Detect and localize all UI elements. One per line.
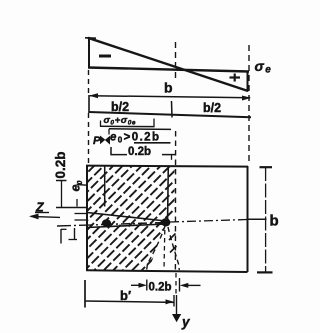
apex stub — [85, 37, 96, 39]
Z axis arrow — [31, 216, 60, 217]
body outline left — [86, 165, 88, 271]
body outline bottom — [86, 270, 248, 272]
kern point 1 — [102, 219, 111, 227]
centerline tick to b label — [248, 218, 267, 220]
hatch zone right solid boundary — [167, 166, 170, 226]
svg-text:b′: b′ — [120, 288, 131, 303]
left edge tick y207 — [56, 207, 87, 209]
lower stub at x61 — [61, 228, 67, 230]
centerline dash-dot mid — [104, 223, 166, 225]
dim row A line — [100, 121, 102, 127]
svg-text:b/2: b/2 — [203, 101, 221, 115]
body outline right — [247, 166, 249, 272]
bell right branch — [168, 227, 179, 270]
wedge hatch marks — [169, 234, 176, 241]
converging line lower — [87, 224, 166, 228]
inner 0.2b strip line — [104, 166, 106, 207]
center dashed axis (top) — [175, 42, 177, 82]
left edge tick y185 — [77, 184, 88, 187]
bell left branch — [147, 226, 165, 270]
centerline dash-dot left — [57, 225, 104, 226]
band mid tick — [171, 101, 174, 118]
row B underline — [134, 142, 171, 144]
bell center dashed — [163, 230, 166, 270]
right dim bottom T-bar — [257, 271, 273, 273]
Z underline — [35, 212, 49, 214]
plus sign — [230, 76, 241, 78]
svg-text:b/2: b/2 — [111, 100, 129, 114]
centerline dash-dot right — [170, 220, 247, 223]
central dashed axis (body) — [174, 131, 176, 270]
stress diagram sloped line — [88, 38, 248, 91]
band left vertical — [88, 95, 90, 113]
svg-text:σe: σe — [255, 58, 272, 76]
lower stub at x74.5 — [74, 228, 76, 240]
svg-text:e0>0.2b: e0>0.2b — [110, 132, 160, 145]
svg-text:y: y — [181, 315, 191, 330]
stress diagram right ordinate — [247, 71, 249, 92]
left edge tick y220 — [75, 219, 88, 221]
y axis below body — [175, 273, 177, 295]
e dim stub — [76, 199, 78, 207]
body outline top — [86, 166, 248, 167]
svg-text:P: P — [93, 135, 101, 147]
stress diagram left ordinate — [88, 38, 90, 69]
svg-text:σ0+σ0e: σ0+σ0e — [104, 115, 137, 127]
b dimension line — [90, 96, 250, 98]
b/2 dimension line — [89, 112, 251, 117]
minus sign — [99, 55, 111, 58]
dim row C bracket — [111, 147, 127, 155]
b' dimension — [84, 280, 86, 308]
stress diagram zero axis — [88, 68, 249, 72]
left 0.2b vertical dimension — [61, 181, 63, 208]
svg-text:b: b — [270, 213, 279, 230]
right b dimension line — [265, 167, 267, 273]
svg-text:b: b — [164, 80, 173, 96]
bottom 0.2b dimension — [131, 284, 140, 286]
svg-text:0.2b: 0.2b — [53, 151, 68, 178]
hatched compression zone — [70, 134, 280, 277]
svg-text:e0: e0 — [69, 181, 85, 192]
left edge tick y213 — [75, 213, 88, 215]
right dim top T-bar — [260, 166, 273, 168]
svg-text:0.2b: 0.2b — [149, 282, 172, 294]
converging line upper — [87, 213, 166, 222]
dim row B line — [109, 128, 171, 131]
load marker bowtie — [100, 136, 110, 145]
right dashed extension line — [248, 45, 250, 163]
svg-text:Z: Z — [35, 201, 45, 215]
kern point 2 — [161, 218, 170, 226]
svg-text:0.2b: 0.2b — [128, 146, 151, 158]
left dashed extension line — [88, 70, 90, 95]
